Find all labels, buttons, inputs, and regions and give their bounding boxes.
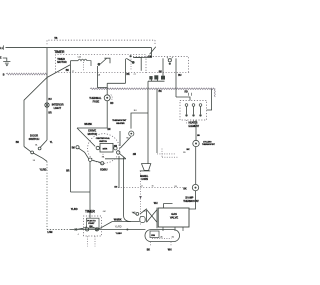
gas valve stubs (163, 227, 183, 231)
svg-text:BU: BU (134, 110, 137, 112)
wire fuse down (106, 101, 108, 128)
timer contact 1T dot (98, 63, 101, 66)
wire thermostat heater branch (131, 113, 148, 129)
wire contact2 drop (125, 59, 127, 84)
svg-text:SWITCH: SWITCH (99, 141, 107, 143)
timer contact 1T label (98, 73, 101, 76)
timer box bottom edge (56, 71, 147, 73)
svg-text:RD: RD (185, 91, 189, 93)
terminal strip (148, 76, 165, 82)
valve 5-40 label (132, 212, 137, 214)
wire BU label 2 (134, 110, 137, 112)
motor switch right circle (114, 147, 117, 150)
svg-text:TIMER: TIMER (54, 50, 65, 54)
wire motor 2M down (119, 156, 131, 222)
heater element 2 (192, 104, 195, 117)
wire bottom bus (47, 228, 145, 230)
thermal fuse symbol (104, 95, 110, 101)
motor switch left circle (96, 146, 99, 149)
door switch label (29, 134, 40, 141)
svg-text:BK: BK (159, 91, 163, 93)
door switch 3A label (35, 144, 38, 147)
heater element label (189, 122, 200, 128)
junction dot coil bus (126, 229, 128, 231)
gas valve box (158, 208, 189, 227)
svg-text:THERMOSTAT: THERMOSTAT (112, 119, 127, 122)
svg-text:HORN: HORN (141, 179, 148, 181)
push start button (163, 57, 176, 70)
svg-text:15 AMP: 15 AMP (185, 196, 194, 199)
interior light BU label (48, 99, 52, 101)
wire BK label 3 (159, 91, 163, 93)
wire door switch to timer dashed (46, 162, 48, 230)
door switch BR label (16, 142, 20, 144)
motor 5M contact (76, 146, 89, 159)
interior light BR label (48, 113, 52, 115)
thermostat heater RD label (126, 138, 129, 140)
svg-text:THERMAL: THERMAL (89, 96, 102, 100)
junction X2 (96, 228, 98, 230)
ignitor inner dashes (152, 238, 172, 240)
timer contact TB (126, 47, 155, 76)
svg-text:5M: 5M (72, 148, 75, 150)
console dashed boundary top (47, 40, 155, 44)
heater element 1 (185, 104, 188, 117)
svg-text:1M: 1M (107, 129, 110, 131)
heater feed ticks (188, 93, 191, 96)
junction 4 label (78, 234, 79, 236)
door switch YL label (50, 142, 53, 144)
wire BU label (116, 233, 123, 235)
cycling thermostat label (202, 141, 216, 146)
ignitor A label (160, 235, 174, 238)
wire BU vertical (46, 48, 48, 140)
svg-text:BU: BU (48, 99, 52, 101)
svg-text:4: 4 (78, 234, 79, 236)
svg-text:LIGHT: LIGHT (54, 106, 62, 110)
svg-text:IGN: IGN (151, 235, 155, 237)
wire L1 main line (6, 47, 152, 49)
svg-text:YL/RD: YL/RD (71, 208, 78, 211)
push start BK label (159, 71, 163, 73)
heater linkage dashes (187, 120, 194, 125)
motor linkage dashes (102, 152, 104, 159)
wire motor top horizontal (77, 127, 107, 129)
signal horn (140, 164, 151, 171)
drive motor dashed circle (88, 134, 120, 164)
motor 2M label (133, 154, 136, 156)
timer contact 2T linkage (130, 59, 132, 71)
svg-text:1M: 1M (114, 186, 117, 188)
wire motor bottom bar (105, 158, 126, 160)
gas valve WH label (154, 203, 158, 205)
gas valve text (170, 212, 178, 220)
wire YL/RD label (40, 168, 47, 171)
wire hilimit to valve (189, 191, 196, 209)
wire 1.5M label (47, 231, 52, 234)
timer motor label (57, 57, 66, 64)
door switch sw1 (24, 140, 47, 161)
svg-text:DRIVE: DRIVE (88, 128, 96, 132)
wire motor c1 down (78, 162, 91, 230)
svg-text:INTERIOR: INTERIOR (52, 103, 64, 107)
wire RD label 2 (185, 91, 189, 93)
valve 3A label (143, 209, 146, 212)
svg-text:BK: BK (66, 70, 70, 72)
timer motor linkage dashes (83, 62, 85, 71)
wire thermostat heater down (120, 131, 131, 148)
wire timer-motor diagonal (24, 65, 70, 147)
junction X1 (75, 228, 77, 230)
wire valve top-left feed (164, 204, 173, 209)
cycling BK label (183, 149, 190, 154)
timer2 dashed box (84, 216, 102, 236)
svg-text:GAS: GAS (171, 212, 177, 216)
interior light label (52, 103, 64, 110)
svg-text:P.S.: P.S. (148, 56, 152, 58)
valve linkage dashed arrow (139, 171, 142, 226)
ground symbol (3, 62, 10, 67)
push start BU label (178, 75, 182, 77)
motor 2M blade (120, 154, 126, 159)
wire WH/BK label (84, 123, 92, 126)
svg-text:BU: BU (178, 75, 182, 77)
motor bottom contact c1 (89, 158, 92, 161)
node L1 label (0, 45, 4, 49)
svg-text:YL/BU: YL/BU (116, 233, 123, 235)
timer2 contact blade (89, 227, 96, 228)
svg-text:CENTRIFUGAL: CENTRIFUGAL (96, 137, 111, 140)
timer contact TB label (54, 37, 57, 40)
svg-text:START: START (88, 222, 95, 225)
svg-text:TB: TB (54, 37, 57, 40)
svg-text:BK: BK (183, 188, 187, 190)
svg-text:MOTOR: MOTOR (88, 132, 98, 136)
cycling thermostat symbol (193, 140, 199, 146)
svg-text:SWITCH: SWITCH (29, 137, 40, 141)
wire heater to cycling stat (195, 120, 197, 140)
cabinet boundary wavy left (6, 73, 47, 75)
push start dashed box (133, 57, 189, 73)
wire motor winding diagonal (77, 128, 95, 146)
ignitor WH label (168, 249, 172, 251)
timer2 inner box (87, 218, 100, 228)
thermostat heater label (112, 119, 127, 125)
svg-text:WH/BK: WH/BK (114, 219, 122, 222)
push start label (148, 56, 152, 58)
ignitor ticks (151, 242, 172, 247)
wire x157 vertical (156, 89, 158, 153)
push start left leg (161, 70, 164, 79)
ignitor BK label (147, 249, 151, 251)
valve coil 2 stem (140, 208, 157, 229)
node E label (0, 58, 2, 60)
timer2 inner text (87, 220, 96, 228)
svg-text:WH: WH (168, 249, 172, 251)
svg-text:2M: 2M (133, 154, 136, 156)
svg-text:BK: BK (187, 149, 190, 151)
valve coil 2 bowtie (147, 210, 157, 223)
timer motor coil (71, 57, 92, 66)
signal horn label (140, 175, 149, 181)
console dashed boundary burner (118, 187, 183, 189)
svg-text:BK: BK (159, 71, 163, 73)
wire diag to coil bus (99, 222, 113, 230)
svg-text:5-40: 5-40 (78, 57, 81, 59)
svg-text:SIGNAL: SIGNAL (140, 175, 149, 178)
wire YL/RD label 3 (115, 226, 122, 229)
svg-text:FUSE: FUSE (93, 100, 100, 104)
svg-text:RD: RD (110, 103, 114, 105)
wire heater feed (176, 97, 190, 100)
motor switch box (100, 143, 113, 152)
motor bottom contact c2 (101, 162, 104, 165)
motor 5M label (72, 148, 75, 150)
timer2 contact a (86, 228, 89, 231)
wire fuse jog (106, 83, 108, 94)
hilimit thermostat label (183, 196, 199, 203)
svg-text:BR: BR (48, 113, 52, 115)
wire YL/RD label 2 (71, 208, 78, 211)
timer label (54, 50, 65, 54)
svg-text:THERMOSTAT: THERMOSTAT (183, 200, 199, 203)
timer contact 2T blade (126, 57, 141, 70)
ground wire (3, 58, 7, 61)
linkage dashed y154 (157, 153, 175, 155)
wire timer to motor vertical (70, 61, 72, 192)
wire bus y86 (107, 82, 125, 84)
svg-text:BK: BK (147, 249, 151, 251)
motor 1M label (107, 129, 110, 131)
svg-text:VALVE: VALVE (170, 216, 178, 220)
console dashed extension (146, 71, 190, 73)
wire 5M down (71, 191, 91, 193)
ignitor box (150, 231, 159, 238)
svg-text:THERMOSTAT: THERMOSTAT (202, 143, 216, 146)
heater element 3 (199, 104, 202, 117)
motor 6M label (114, 146, 117, 148)
timer dashed box (56, 55, 147, 73)
wire terminal down (147, 81, 149, 163)
svg-text:RD/BU: RD/BU (100, 168, 108, 171)
timer2 contact b (95, 228, 98, 231)
wire push start right leg (175, 70, 177, 97)
wire contact1 drop (98, 66, 108, 88)
motor 8A label (102, 156, 105, 159)
drive motor label (88, 128, 98, 135)
svg-text:MOTOR: MOTOR (57, 60, 66, 64)
node B label (3, 74, 5, 77)
svg-text:HEATER: HEATER (116, 122, 125, 125)
valve coil 1 (140, 216, 145, 222)
valve coil terminal (133, 212, 139, 216)
stat box dashed corner (162, 149, 178, 158)
wire RD label (110, 103, 114, 105)
svg-text:6M: 6M (103, 211, 106, 213)
wire cycling to hilimit (195, 147, 197, 185)
motor bottom label (100, 168, 108, 171)
cabinet boundary wavy right (90, 88, 215, 97)
wire coil bus (112, 221, 140, 223)
svg-text:WH: WH (154, 203, 158, 205)
svg-text:30: 30 (152, 186, 154, 188)
timer contact 1T blade (100, 58, 110, 64)
svg-text:TIMER: TIMER (85, 209, 96, 213)
svg-text:BK: BK (126, 74, 130, 76)
svg-text:YL/RD: YL/RD (115, 226, 122, 229)
timer contact 2T dot (132, 61, 135, 64)
burner boundary labels (141, 186, 178, 188)
svg-text:YL/RD: YL/RD (40, 168, 47, 171)
thermal fuse side dashes (111, 95, 112, 101)
timer2 label (85, 209, 96, 213)
wire heater exit (207, 89, 212, 110)
svg-text:BR: BR (66, 171, 70, 173)
svg-text:PUSH TO: PUSH TO (87, 220, 96, 222)
wire WH/BK label 2 (114, 219, 122, 222)
svg-text:BR: BR (16, 142, 20, 144)
centrifugal switch label (96, 137, 111, 143)
door switch 5B label (33, 160, 36, 162)
svg-text:1.5M: 1.5M (47, 231, 52, 234)
hilimit thermostat symbol (192, 184, 198, 190)
motor 2M contact circle (117, 151, 120, 154)
wire BR label 2 (66, 171, 70, 173)
lamp interior light (45, 103, 49, 107)
heater dashed box (180, 100, 207, 120)
motor bottom diagonal (92, 160, 100, 162)
timer 1T BK label (66, 70, 75, 73)
svg-text:CYCLING: CYCLING (203, 141, 212, 143)
svg-text:WH/BK: WH/BK (84, 123, 92, 126)
motor 1M label 2 (114, 186, 117, 188)
thermostat heater symbol (129, 131, 134, 136)
svg-text:MTR: MTR (103, 149, 108, 151)
timer contact 2T label (134, 74, 137, 76)
thermal fuse label (89, 96, 102, 104)
ignitor loop (145, 230, 180, 242)
svg-text:ELEMENT: ELEMENT (189, 126, 200, 128)
cycling BU label (197, 135, 200, 137)
timer2 6M label (103, 211, 106, 213)
timer2 linkage dashes (88, 236, 96, 246)
console boundary right tick (154, 40, 156, 44)
hilimit BK label (183, 188, 187, 190)
